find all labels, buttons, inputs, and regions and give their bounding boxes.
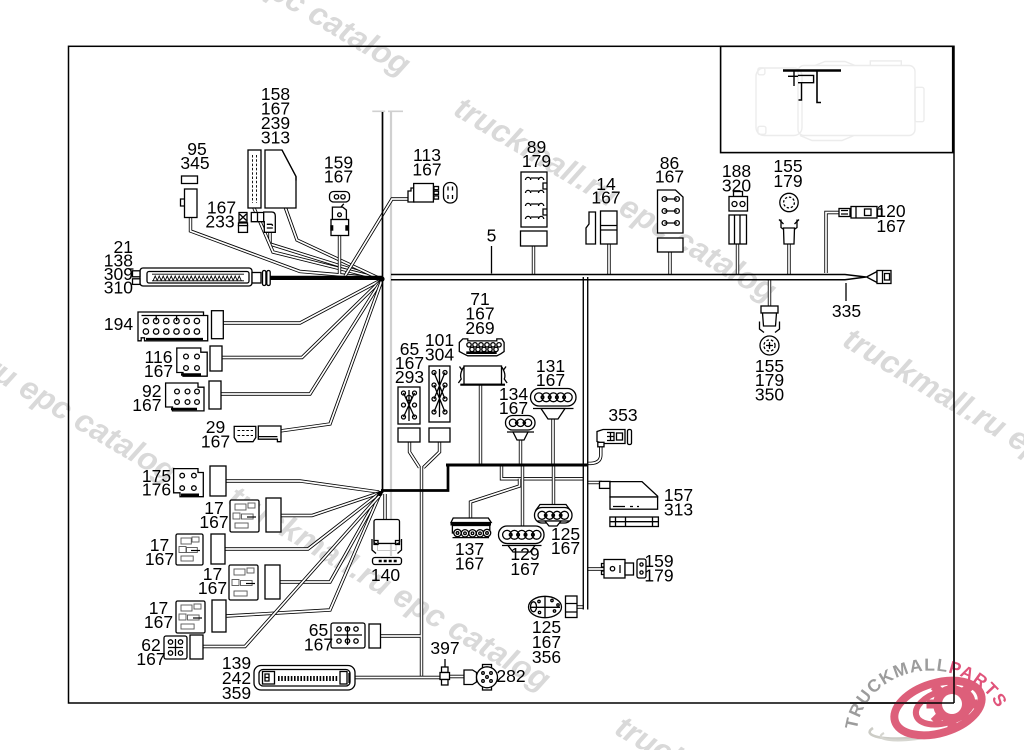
svg-text:194: 194 [104,314,133,334]
svg-text:335: 335 [832,301,861,321]
svg-text:167: 167 [136,649,165,669]
svg-text:167: 167 [499,398,528,418]
svg-text:269: 269 [465,318,494,338]
svg-text:176: 176 [142,480,171,500]
svg-text:167: 167 [144,612,173,632]
svg-text:167: 167 [304,635,333,655]
svg-text:353: 353 [608,405,637,425]
svg-text:167: 167 [412,160,441,180]
svg-text:167: 167 [876,216,905,236]
svg-text:359: 359 [222,683,251,703]
svg-text:320: 320 [722,176,751,196]
svg-text:167: 167 [198,578,227,598]
svg-text:167: 167 [551,538,580,558]
svg-text:293: 293 [395,367,424,387]
svg-text:233: 233 [205,212,234,232]
svg-text:179: 179 [773,171,802,191]
svg-text:282: 282 [496,666,525,686]
svg-text:356: 356 [532,647,561,667]
svg-text:167: 167 [455,554,484,574]
svg-text:179: 179 [522,151,551,171]
svg-text:167: 167 [510,559,539,579]
svg-text:167: 167 [655,167,684,187]
svg-text:5: 5 [487,226,497,246]
svg-text:167: 167 [145,549,174,569]
svg-text:397: 397 [430,638,459,658]
svg-text:167: 167 [132,395,161,415]
svg-text:304: 304 [425,345,454,365]
svg-text:167: 167 [201,432,230,452]
svg-text:167: 167 [536,370,565,390]
svg-text:167: 167 [324,167,353,187]
svg-text:167: 167 [591,188,620,208]
svg-text:179: 179 [644,566,673,586]
svg-text:167: 167 [199,512,228,532]
svg-text:350: 350 [755,385,784,405]
svg-text:313: 313 [664,500,693,520]
svg-text:345: 345 [180,153,209,173]
svg-text:310: 310 [104,278,133,298]
svg-text:167: 167 [144,361,173,381]
svg-text:313: 313 [261,128,290,148]
svg-text:140: 140 [371,565,400,585]
